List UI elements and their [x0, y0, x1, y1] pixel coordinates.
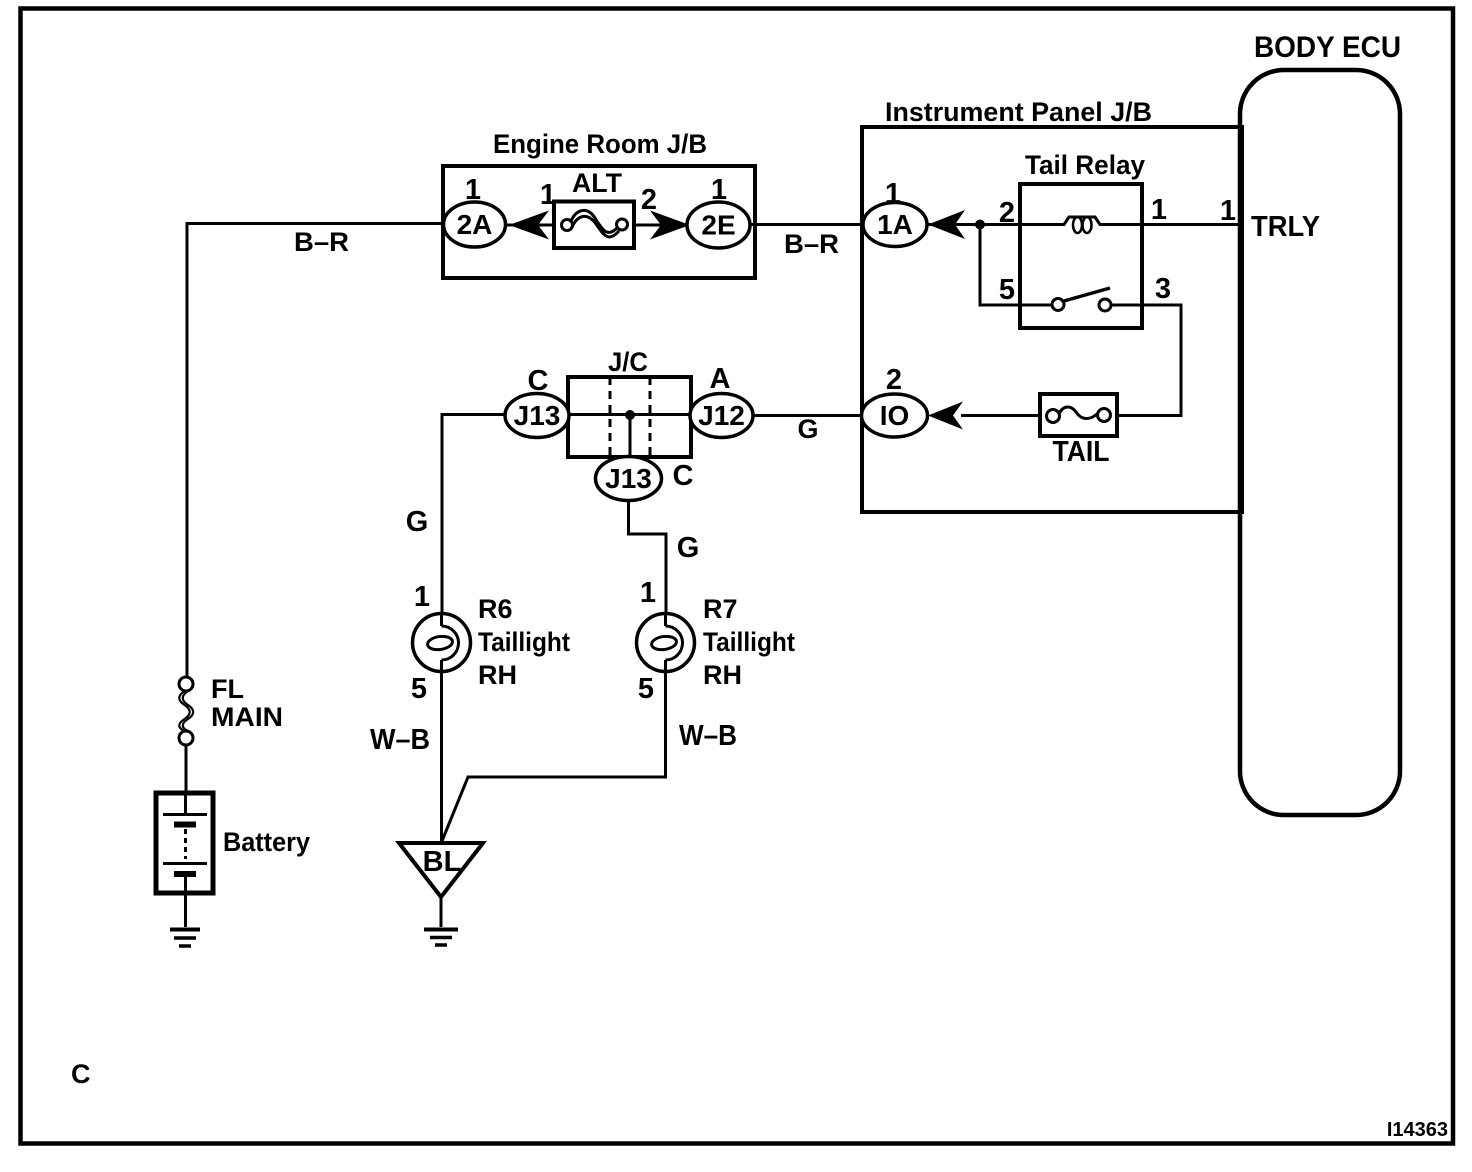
wire 1A to relay [927, 223, 1020, 226]
svg-text:5: 5 [638, 673, 654, 705]
connector J13 left [505, 365, 569, 438]
Instrument Panel J/B box [862, 97, 1242, 512]
svg-text:3: 3 [1155, 273, 1171, 305]
arrow into 2A [509, 211, 549, 240]
wire J13 left to R6 [442, 415, 505, 617]
svg-text:G: G [797, 414, 818, 444]
arrow into IO [928, 402, 963, 430]
wire BL to earth [440, 897, 443, 927]
relay coil [999, 194, 1167, 233]
fuse TAIL [1040, 394, 1117, 468]
svg-text:Battery: Battery [223, 827, 310, 857]
svg-text:RH: RH [478, 660, 517, 690]
connector 2A [444, 174, 506, 247]
svg-text:C: C [528, 365, 549, 397]
wire R7 to BL ground [442, 660, 666, 841]
wire TAIL to IO [961, 414, 1040, 417]
svg-text:Instrument Panel J/B: Instrument Panel J/B [885, 97, 1152, 127]
wire battery feed left [187, 224, 444, 678]
wire IO to J12 [753, 414, 861, 417]
wire 2E to 1A [750, 223, 862, 226]
svg-text:TAIL: TAIL [1053, 436, 1110, 468]
wire FL to battery [185, 745, 188, 793]
connector J12 right [690, 363, 753, 438]
connector 1A [863, 178, 927, 247]
svg-text:W–B: W–B [679, 720, 737, 752]
svg-text:1: 1 [465, 174, 481, 206]
svg-text:MAIN: MAIN [211, 702, 283, 732]
svg-text:Taillight: Taillight [478, 627, 570, 657]
battery [156, 793, 310, 893]
svg-text:C: C [71, 1059, 91, 1089]
Tail Relay box [1020, 150, 1145, 328]
svg-text:Tail Relay: Tail Relay [1025, 150, 1145, 180]
svg-text:2: 2 [999, 197, 1015, 229]
svg-text:BL: BL [423, 846, 462, 878]
svg-text:C: C [673, 460, 694, 492]
svg-text:FL: FL [211, 674, 244, 704]
fusible link FL MAIN [179, 674, 283, 745]
svg-text:G: G [677, 532, 700, 564]
svg-text:TRLY: TRLY [1251, 211, 1320, 243]
wire J13 bottom to R7 [629, 500, 667, 616]
svg-text:BODY ECU: BODY ECU [1254, 31, 1401, 64]
connector 2E [687, 174, 750, 248]
svg-text:I14363: I14363 [1387, 1119, 1448, 1141]
relay switch [999, 273, 1171, 311]
BODY ECU U1 [1240, 31, 1401, 815]
ground earth below BL [424, 930, 458, 946]
svg-text:B–R: B–R [294, 227, 349, 257]
taillight R7 [637, 577, 796, 705]
svg-text:J13: J13 [514, 400, 561, 431]
ground BL triangle [399, 843, 483, 897]
wire relay to BODY ECU TRLY [1142, 223, 1240, 226]
svg-text:5: 5 [411, 673, 427, 705]
wire battery to earth [184, 893, 187, 927]
svg-text:Taillight: Taillight [703, 627, 795, 657]
svg-text:J/C: J/C [608, 347, 648, 377]
arrow into 2E [650, 211, 690, 240]
wire ALT to 2E [634, 224, 688, 227]
svg-text:5: 5 [999, 274, 1015, 306]
svg-text:IO: IO [880, 400, 910, 431]
connector J13 bottom [596, 457, 694, 501]
svg-text:1: 1 [540, 179, 556, 211]
svg-text:R6: R6 [478, 594, 513, 624]
Engine Room J/B box [443, 129, 755, 278]
svg-text:1: 1 [711, 174, 727, 206]
wire 2A to ALT fuse [505, 224, 556, 227]
svg-text:1: 1 [414, 581, 430, 613]
svg-text:2: 2 [641, 184, 657, 216]
svg-text:2E: 2E [701, 210, 735, 241]
svg-text:Engine Room J/B: Engine Room J/B [493, 129, 707, 159]
junction connector J/C box [568, 347, 691, 457]
node dot in J/C [625, 410, 635, 420]
svg-text:RH: RH [703, 660, 742, 690]
svg-text:W–B: W–B [370, 724, 430, 756]
wire R6 to BL ground [440, 660, 443, 843]
svg-text:2A: 2A [457, 209, 493, 240]
svg-text:J12: J12 [698, 400, 745, 431]
svg-text:J13: J13 [605, 463, 652, 494]
wire through J/C [570, 413, 690, 416]
wire junction to relay switch pin 5 [980, 225, 1053, 306]
wire switch pin 3 to TAIL fuse [1111, 305, 1181, 416]
svg-text:B–R: B–R [784, 229, 839, 259]
svg-text:2: 2 [886, 364, 902, 396]
svg-text:1: 1 [885, 178, 901, 210]
svg-text:A: A [710, 363, 731, 395]
taillight R6 [411, 581, 570, 705]
svg-text:ALT: ALT [572, 168, 622, 198]
wire dot to J13 bottom [629, 415, 632, 457]
fuse ALT [540, 168, 657, 248]
svg-text:1A: 1A [877, 209, 913, 240]
junction node [975, 220, 985, 230]
svg-text:1: 1 [640, 577, 656, 609]
svg-text:1: 1 [1220, 195, 1236, 227]
arrow into 1A [928, 210, 965, 239]
ground earth below battery [170, 930, 200, 947]
svg-text:R7: R7 [703, 594, 738, 624]
connector IO [862, 364, 928, 437]
svg-text:G: G [406, 506, 429, 538]
svg-text:1: 1 [1151, 194, 1167, 226]
